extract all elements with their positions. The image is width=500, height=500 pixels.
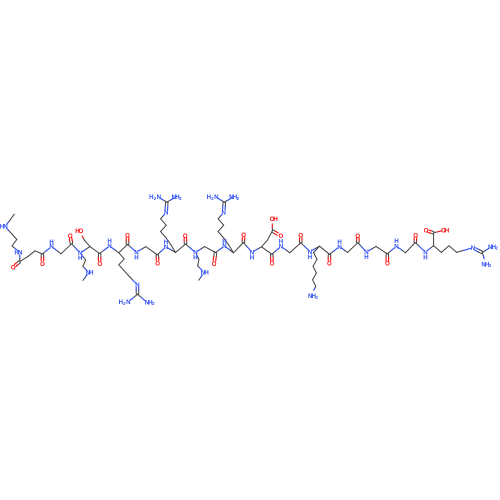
- wire bond mA-ch0: [10, 214, 14, 220]
- carbonyl O11: [298, 233, 303, 240]
- wire bond s6b-Ns6: [198, 266, 203, 271]
- wire bond CA-NA2: [167, 198, 174, 202]
- wire bond C7-O7: [184, 238, 187, 244]
- backbone N5-H: [164, 239, 168, 251]
- wire bond N7-aG: [227, 248, 234, 253]
- carbonyl O13: [355, 233, 360, 240]
- wire bond N11-aK: [342, 248, 348, 252]
- svg-text:O: O: [355, 233, 360, 240]
- wire bond C12-N11: [330, 248, 338, 254]
- svg-text:O: O: [241, 232, 246, 239]
- amine N0 (HN): [0, 224, 8, 231]
- wire bond k1-k2: [314, 253, 317, 260]
- svg-text:N: N: [18, 250, 22, 257]
- wire bond N3-aC: [112, 248, 119, 253]
- svg-text:H: H: [164, 239, 168, 246]
- sidechain NH (x89): [86, 270, 94, 277]
- wire bond C5-N4: [128, 244, 135, 250]
- wire bond Na-C1: [19, 255, 21, 262]
- wire bond gC2-gC3: [119, 265, 124, 271]
- svg-text:O: O: [424, 228, 429, 235]
- wire bond gA5-aE: [171, 245, 176, 253]
- wire bond NF-CF: [475, 248, 483, 254]
- svg-text:H: H: [107, 238, 111, 245]
- carbonyl O1: [11, 264, 16, 271]
- guanidine C N: [135, 282, 139, 289]
- wire bond CF-NF2: [482, 253, 484, 259]
- svg-text:O: O: [327, 260, 332, 267]
- backbone N8-H: [250, 250, 254, 262]
- wire bond NC-CC: [136, 287, 139, 294]
- wire bond aF-C8: [205, 247, 216, 253]
- svg-text:H: H: [273, 216, 277, 223]
- guanidine C H2N: [119, 299, 131, 306]
- svg-text:H: H: [423, 254, 427, 261]
- wire bond C4-N3: [100, 248, 108, 254]
- backbone N11-H: [337, 239, 341, 251]
- backbone N9-H: [279, 238, 283, 250]
- svg-text:H: H: [394, 238, 398, 245]
- wire bond s2a-s2b: [83, 260, 86, 266]
- wire bond aM-C15: [406, 243, 416, 253]
- carbonyl O4: [97, 261, 102, 268]
- wire bond C2-N1: [42, 248, 49, 254]
- wire bond gB2-gB3: [218, 225, 224, 231]
- wire bond k3-k4: [313, 266, 316, 273]
- svg-text:O: O: [79, 228, 84, 235]
- svg-text:O: O: [298, 233, 303, 240]
- wire bond C6-O6: [156, 255, 159, 261]
- sidechain NH (x204): [201, 270, 209, 277]
- wire bond C10-O10: [271, 254, 274, 261]
- wire bond k6-Nlys: [314, 286, 316, 290]
- guanidine B NH2: [229, 194, 239, 201]
- wire bond aC-C5: [119, 244, 128, 252]
- svg-text:H: H: [193, 255, 197, 262]
- wire bond aA-C3: [61, 244, 72, 254]
- wire bond gA4-gA5: [166, 238, 171, 245]
- svg-text:H: H: [204, 270, 208, 277]
- wire bond aB-serc: [84, 240, 90, 246]
- wire bond C5-O5: [126, 238, 129, 245]
- wire bond C15-O15: [414, 238, 417, 243]
- svg-text:O: O: [155, 260, 160, 267]
- wire bond aJ-C12: [320, 246, 330, 254]
- guanidine F NH2 b: [481, 261, 491, 268]
- guanidine A NH2: [172, 194, 182, 201]
- guanidine C NH2: [145, 299, 155, 306]
- carbonyl O5: [125, 232, 130, 239]
- svg-text:O: O: [97, 261, 102, 268]
- lysine NH2: [308, 293, 318, 300]
- guanidine F NH2 a: [488, 244, 498, 251]
- wire bond gB3-gB4: [218, 232, 224, 238]
- svg-text:O: O: [125, 232, 130, 239]
- svg-text:N: N: [135, 282, 139, 289]
- wire bond CA-NA1: [160, 198, 167, 202]
- wire bond C3-N2: [72, 244, 79, 251]
- wire bond serc-serO: [82, 236, 84, 240]
- wire bond aL-C14: [376, 246, 387, 253]
- svg-text:N: N: [164, 210, 168, 217]
- guanidine B H2N: [207, 194, 219, 201]
- svg-text:O: O: [413, 233, 418, 240]
- wire bond aG-C9: [234, 243, 244, 253]
- wire bond C3-O3: [69, 238, 72, 244]
- carbonyl O15: [413, 233, 418, 240]
- wire bond gB1-gB2: [218, 219, 224, 225]
- wire bond CA-NA: [165, 202, 168, 210]
- wire bond ch0-N0: [7, 220, 11, 224]
- wire bond gA3-gA4: [161, 232, 167, 238]
- wire bond N6-aF: [198, 247, 205, 252]
- wire bond aB-C4: [90, 247, 100, 254]
- wire bond N8-aH: [254, 247, 261, 251]
- wire bond N5-aE: [168, 248, 175, 252]
- aspartate OH: [270, 216, 278, 223]
- wire bond C10-N9: [272, 248, 279, 254]
- wire bond c6-Na: [12, 246, 18, 251]
- wire bond N2-aB: [82, 247, 90, 252]
- wire bond N0-c4: [7, 229, 11, 234]
- wire bond C14-N13: [387, 248, 394, 254]
- wire bond c4-c5: [11, 233, 17, 240]
- svg-text:N: N: [214, 194, 218, 201]
- wire bond gC4-NC: [130, 277, 136, 283]
- wire bond N2-s2a: [82, 255, 86, 260]
- wire bond aJ-k1: [314, 246, 320, 252]
- wire bond f1-f2: [441, 246, 449, 253]
- backbone N13-H: [394, 238, 398, 250]
- wire bond aH-aspc: [262, 240, 268, 247]
- guanidine F N: [471, 245, 475, 252]
- wire bond C9-O9: [242, 238, 245, 243]
- wire bond C14-O14: [386, 254, 389, 261]
- wire bond Casp-OHasp: [271, 224, 273, 231]
- wire bond f2-f3: [449, 246, 457, 253]
- wire bond Cac-Oac: [428, 230, 434, 234]
- svg-text:N: N: [126, 299, 130, 306]
- backbone N2-H: [78, 250, 82, 262]
- wire bond CC-NC2: [138, 294, 145, 300]
- wire bond Ns6-s6m: [199, 275, 203, 281]
- guanidine B N: [221, 210, 225, 217]
- svg-text:N: N: [471, 245, 475, 252]
- wire bond C7-N6: [186, 244, 194, 251]
- wire bond gB5-aG: [229, 245, 234, 253]
- svg-text:O: O: [212, 261, 217, 268]
- carbonyl O7: [183, 233, 188, 240]
- svg-text:N: N: [157, 194, 161, 201]
- svg-text:N: N: [3, 224, 7, 231]
- wire bond gC3-gC4: [124, 271, 130, 277]
- C-terminal acid O: [424, 228, 429, 235]
- wire bond Casp-Oasp: [272, 230, 279, 235]
- wire bond C6-N5: [157, 249, 164, 255]
- carbonyl O9: [241, 232, 246, 239]
- svg-text:O: O: [183, 233, 188, 240]
- wire bond aE-C7: [176, 244, 186, 253]
- backbone N10-H: [308, 249, 312, 261]
- svg-text:O: O: [68, 233, 73, 240]
- svg-text:H: H: [89, 270, 93, 277]
- wire bond aI-C11: [290, 243, 301, 253]
- svg-text:H: H: [49, 239, 53, 246]
- serine HO: [75, 228, 83, 235]
- wire bond Cac-OHac: [434, 231, 441, 233]
- svg-text:H: H: [337, 239, 341, 246]
- wire bond CC-NC1: [130, 294, 137, 300]
- wire bond NB-gB1: [218, 214, 222, 219]
- wire bond NA-gA1: [161, 214, 165, 219]
- backbone N14-H: [423, 249, 427, 261]
- svg-text:H: H: [364, 254, 368, 261]
- wire bond aC-gC1: [119, 253, 124, 259]
- wire bond gA2-gA3: [161, 225, 167, 231]
- carbonyl O14: [385, 261, 390, 268]
- wire bond CB-NB1: [218, 198, 225, 202]
- wire bond N4-aD: [139, 247, 146, 251]
- wire bond C11-O11: [300, 238, 303, 243]
- amide Na (HN): [14, 250, 22, 257]
- wire bond gA1-gA2: [161, 219, 167, 225]
- svg-text:O: O: [279, 233, 284, 240]
- backbone N1-H: [49, 239, 53, 251]
- wire bond C12-O12: [328, 254, 331, 260]
- wire bond s2b-Ns2: [83, 266, 87, 270]
- wire bond k5-k6: [313, 280, 316, 287]
- carbonyl O6: [155, 260, 160, 267]
- svg-text:O: O: [40, 261, 45, 268]
- wire bond aN-Cac: [433, 233, 435, 246]
- svg-text:H: H: [222, 239, 226, 246]
- carbonyl O2: [40, 261, 45, 268]
- wire bond C11-N10: [301, 243, 308, 250]
- wire bond CF-NF1: [482, 248, 489, 253]
- wire bond a1-v1: [28, 251, 36, 257]
- wire bond C4-O4: [98, 254, 101, 262]
- backbone N4-H: [134, 249, 138, 261]
- wire bond C15-N14: [415, 243, 423, 251]
- wire bond CB-NB: [223, 202, 226, 210]
- wire bond C13-N12: [358, 243, 365, 251]
- wire bond C8-N7: [216, 248, 223, 253]
- wire bond C13-O13: [357, 238, 360, 243]
- backbone N7-H: [222, 239, 226, 251]
- wire bond N9-aI: [283, 248, 290, 253]
- wire bond C8-O8: [213, 252, 217, 261]
- wire bond aH-C10: [262, 247, 272, 254]
- wire bond C1-a1: [20, 257, 28, 262]
- backbone N6-H: [193, 250, 197, 262]
- wire bond aD-C6: [146, 247, 158, 255]
- wire bond N10-aJ: [312, 246, 319, 250]
- svg-text:H: H: [78, 255, 82, 262]
- wire bond N6-s6a: [197, 255, 199, 260]
- wire bond C1-O1: [14, 261, 20, 267]
- svg-text:H: H: [445, 228, 449, 235]
- carbonyl O8: [212, 261, 217, 268]
- wire bond k4-k5: [313, 273, 317, 280]
- carbonyl O12: [327, 260, 332, 267]
- wire bond N12-aL: [369, 246, 376, 250]
- backbone N3-H: [107, 238, 111, 250]
- wire bond C2-O2: [41, 254, 44, 261]
- wire bond aN-f1: [434, 246, 442, 253]
- carbonyl O3: [68, 233, 73, 240]
- wire bond gC1-gC2: [119, 259, 124, 265]
- wire bond N14-aN: [427, 246, 433, 251]
- wire bond s6a-s6b: [198, 259, 199, 266]
- wire bond Ns2-s2m: [83, 275, 87, 281]
- backbone N12-H: [364, 249, 368, 261]
- guanidine A H2N: [149, 194, 161, 201]
- svg-text:O: O: [11, 264, 16, 271]
- svg-text:H: H: [134, 254, 138, 261]
- wire bond f3-NF: [457, 248, 471, 252]
- wire bond k2-k3: [313, 259, 317, 266]
- svg-text:O: O: [270, 261, 275, 268]
- C-terminal acid OH: [441, 228, 449, 235]
- carbonyl O10: [270, 261, 275, 268]
- guanidine A N: [164, 210, 168, 217]
- wire bond C9-N8: [243, 243, 250, 251]
- svg-text:N: N: [221, 210, 225, 217]
- wire bond N13-aM: [399, 248, 406, 253]
- wire bond aK-C13: [348, 243, 358, 253]
- aspartate O: [279, 233, 284, 240]
- wire bond N1-aA: [54, 248, 61, 254]
- svg-text:H: H: [250, 255, 254, 262]
- svg-text:O: O: [385, 261, 390, 268]
- wire bond aspc-Casp: [267, 231, 272, 240]
- wire bond v1-C2: [35, 251, 42, 254]
- svg-text:H: H: [308, 254, 312, 261]
- wire bond CB-NB2: [224, 198, 231, 202]
- wire bond gB4-gB5: [224, 238, 229, 245]
- wire bond c5-c6: [12, 240, 17, 247]
